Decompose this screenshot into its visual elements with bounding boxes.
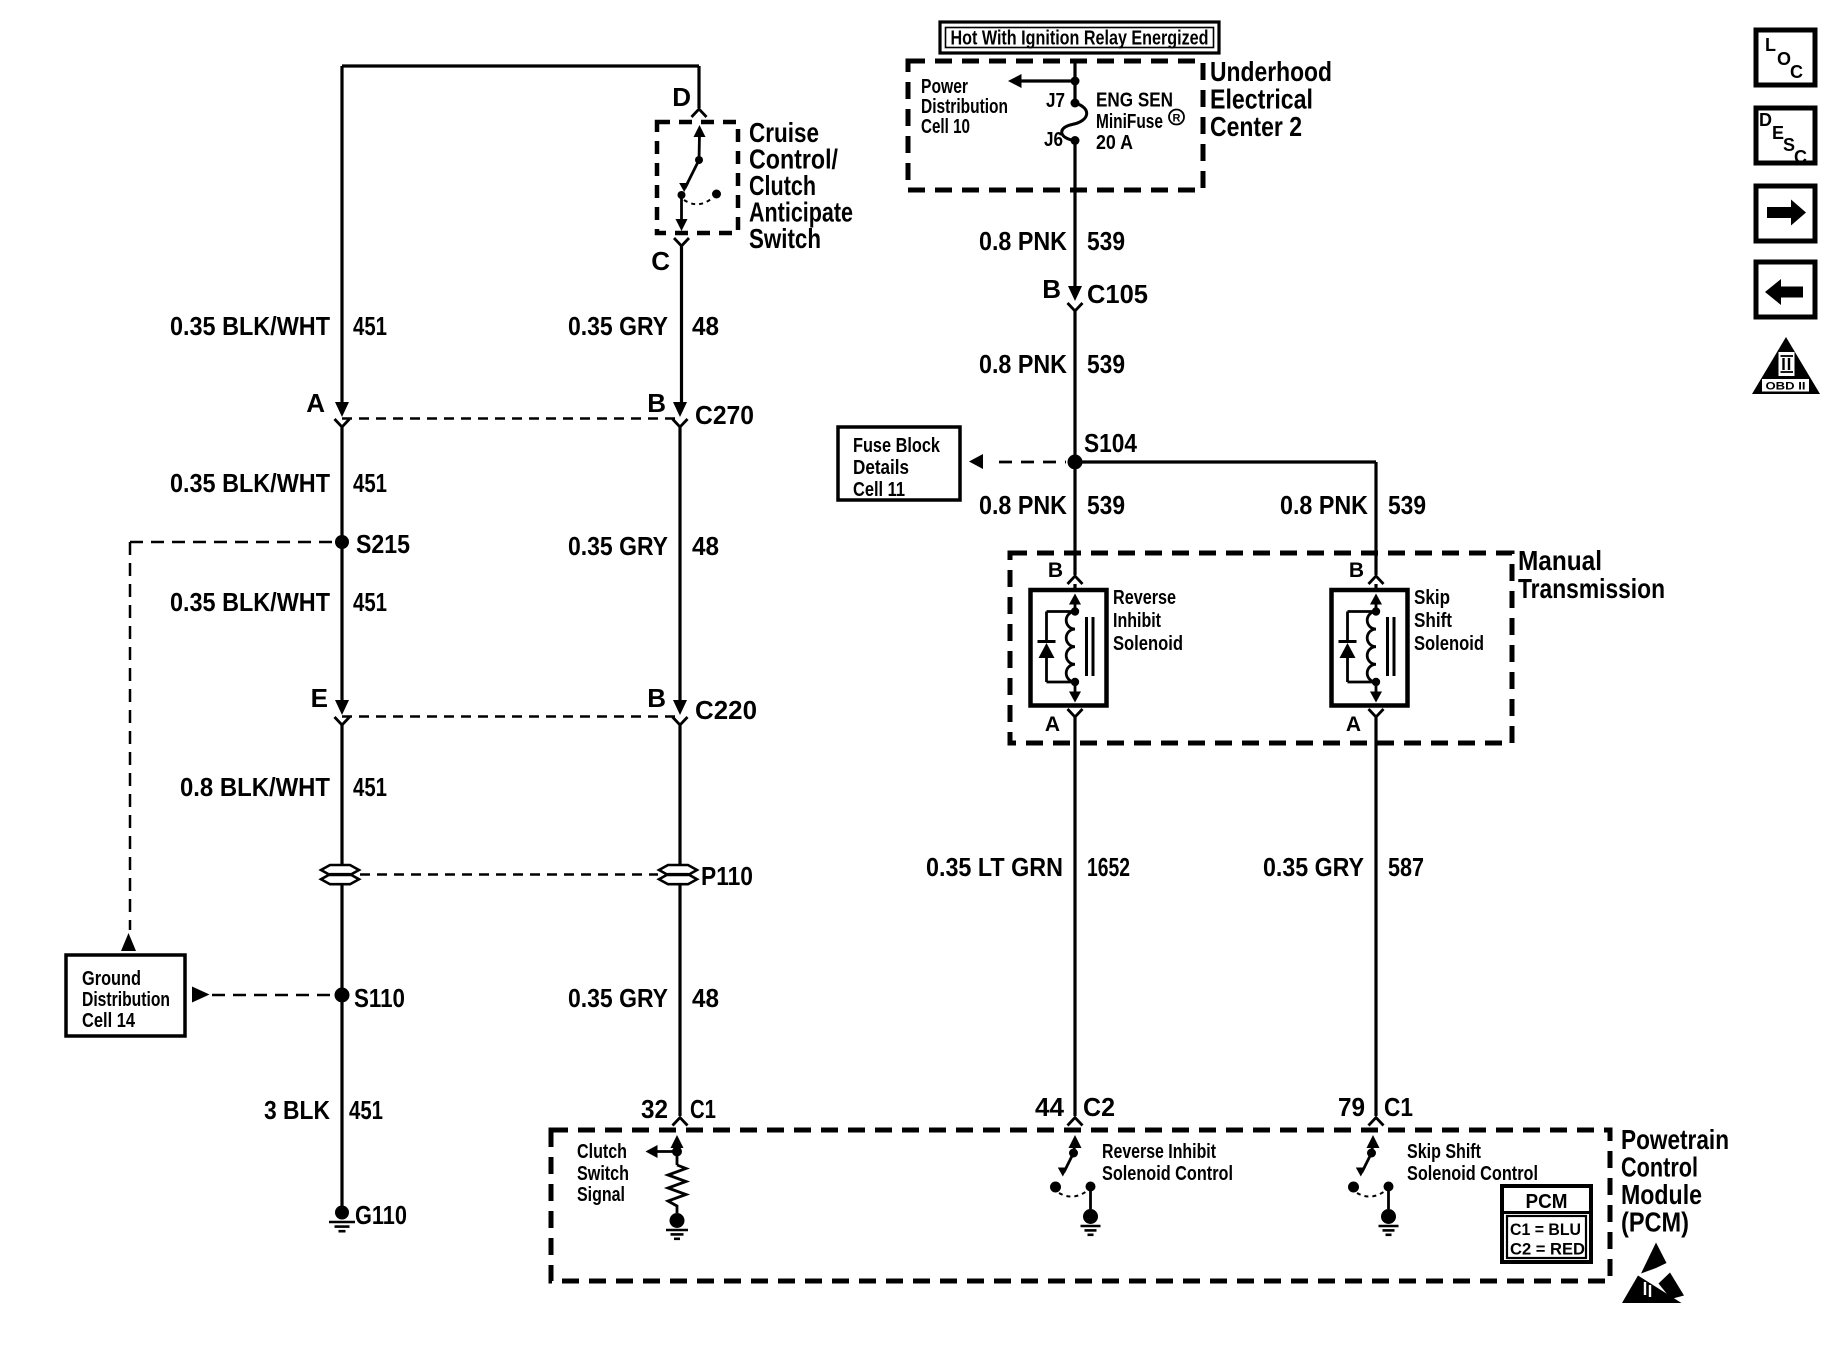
nav icon: back arrow button: [1756, 262, 1815, 317]
svg-text:48: 48: [692, 531, 719, 561]
svg-text:0.35 BLK/WHT: 0.35 BLK/WHT: [170, 468, 330, 498]
svg-text:B: B: [647, 683, 666, 713]
driver output arrow: [1069, 1135, 1082, 1148]
svg-text:539: 539: [1388, 490, 1426, 520]
nav icon: forward arrow button: [1756, 186, 1815, 241]
switch contact arm: [694, 125, 706, 137]
svg-text:32: 32: [641, 1094, 668, 1124]
svg-text:451: 451: [353, 468, 387, 498]
coil winding: [1367, 612, 1376, 682]
svg-text:48: 48: [692, 983, 719, 1013]
wire: middle 0.35 GRY 48 (C220 to P110): [678, 725, 681, 865]
svg-text:B: B: [1048, 559, 1063, 582]
svg-text:0.8 PNK: 0.8 PNK: [979, 349, 1067, 379]
node: coil bottom junction: [1071, 678, 1079, 686]
svg-text:C: C: [1790, 62, 1803, 82]
dashed connector line C270: [342, 417, 680, 420]
svg-text:Cell 14: Cell 14: [82, 1010, 136, 1032]
svg-text:0.35 GRY: 0.35 GRY: [568, 983, 668, 1013]
svg-text:OBD II: OBD II: [1766, 381, 1806, 393]
wire into solenoid case: [1374, 584, 1377, 590]
wire: S104 down to reverse inhibit feed: [1073, 462, 1076, 575]
svg-text:Control: Control: [1621, 1152, 1698, 1183]
driver output arrow: [1367, 1135, 1380, 1148]
svg-text:539: 539: [1087, 226, 1125, 256]
svg-text:0.35 GRY: 0.35 GRY: [1263, 852, 1364, 882]
nav icon: OBD II triangle: [1752, 337, 1820, 394]
svg-text:Module: Module: [1621, 1179, 1702, 1210]
wire: middle 0.35 GRY 48 (P110 to PCM pin 32): [678, 884, 681, 1116]
svg-text:MiniFuse: MiniFuse: [1096, 111, 1163, 133]
svg-text:Reverse Inhibit: Reverse Inhibit: [1102, 1141, 1216, 1163]
cruise control / clutch anticipate switch (dashed outline): [657, 122, 738, 233]
wire: left 0.35 BLK/WHT 451 (top): [340, 66, 343, 403]
wire: 0.35 GRY 48 (switch to C270): [680, 246, 683, 403]
node: coil top junction: [1372, 607, 1380, 615]
svg-text:Power: Power: [921, 76, 968, 98]
reference arrow from ground distribution box: [192, 987, 210, 1003]
wire: solenoid return to PCM: [1374, 717, 1377, 1116]
svg-text:Solenoid: Solenoid: [1414, 633, 1484, 655]
dashed reference line to fuse block details: [999, 461, 1066, 464]
solenoid internal feed arrow: [1370, 594, 1382, 605]
coil winding: [1066, 612, 1075, 682]
alternate throw (dashed): [1357, 1191, 1385, 1197]
connector pin A of solenoid: [1369, 709, 1384, 717]
svg-text:Solenoid: Solenoid: [1113, 633, 1183, 655]
ESD sensitivity symbol: [1641, 1243, 1667, 1274]
svg-text:451: 451: [353, 311, 387, 341]
svg-text:Fuse Block: Fuse Block: [853, 435, 941, 457]
wire into solenoid case: [1073, 584, 1076, 590]
svg-text:Transmission: Transmission: [1518, 573, 1665, 604]
svg-text:S215: S215: [356, 529, 410, 559]
svg-text:Details: Details: [853, 457, 909, 479]
node: coil top junction: [1071, 607, 1079, 615]
wire: 0.8 PNK 539 (fuse to C105): [1073, 141, 1076, 288]
nav icon: LOC button: [1756, 30, 1815, 85]
svg-text:539: 539: [1087, 349, 1125, 379]
powertrain control module (dashed outline): [551, 1130, 1610, 1281]
splice S110: [335, 988, 350, 1003]
power feed banner: Hot With Ignition Relay Energized: [940, 22, 1219, 53]
wire: 0.8 PNK 539 (C105 to S104): [1073, 311, 1076, 462]
svg-text:Powetrain: Powetrain: [1621, 1124, 1729, 1155]
grommet P110 (middle wire): [659, 865, 697, 875]
switch second contact: [1086, 1182, 1096, 1192]
svg-text:C2: C2: [1083, 1092, 1115, 1122]
solenoid case: [1332, 590, 1408, 706]
branch arrow to power distribution: [1016, 79, 1075, 82]
svg-text:D: D: [1759, 110, 1772, 130]
svg-text:ENG SEN: ENG SEN: [1096, 90, 1173, 112]
svg-text:Shift: Shift: [1414, 610, 1452, 632]
svg-text:E: E: [311, 683, 328, 713]
solenoid internal return arrow: [1074, 682, 1077, 693]
svg-text:Ground: Ground: [82, 968, 141, 990]
svg-text:B: B: [647, 388, 666, 418]
wire: left 0.8 BLK/WHT 451: [340, 725, 343, 865]
solenoid internal return arrow: [1375, 682, 1378, 693]
svg-text:0.35 GRY: 0.35 GRY: [568, 531, 668, 561]
svg-text:Cell 11: Cell 11: [853, 479, 905, 501]
switch pivot: [1050, 1182, 1061, 1193]
svg-text:C1: C1: [690, 1094, 716, 1124]
svg-text:0.35 BLK/WHT: 0.35 BLK/WHT: [170, 587, 330, 617]
svg-text:Electrical: Electrical: [1210, 84, 1313, 115]
switch pivot: [1348, 1182, 1359, 1193]
svg-text:J7: J7: [1046, 90, 1065, 112]
underhood electrical center 2 (dashed outline): [908, 61, 1203, 190]
internal ground: [1381, 1209, 1396, 1224]
svg-text:Manual: Manual: [1518, 545, 1602, 576]
svg-text:Cell 10: Cell 10: [921, 116, 970, 138]
switch fixed contact: [1069, 1149, 1078, 1158]
svg-text:Signal: Signal: [577, 1184, 625, 1206]
svg-text:C220: C220: [695, 695, 757, 725]
internal ground: [1083, 1209, 1098, 1224]
svg-text:Solenoid Control: Solenoid Control: [1407, 1163, 1538, 1185]
svg-text:A: A: [1346, 713, 1361, 736]
svg-text:Skip: Skip: [1414, 587, 1450, 609]
svg-text:79: 79: [1338, 1092, 1365, 1122]
switch arm: [1064, 1153, 1074, 1172]
svg-text:451: 451: [353, 587, 387, 617]
svg-text:Clutch: Clutch: [577, 1141, 627, 1163]
manual transmission (dashed outline): [1010, 553, 1512, 743]
svg-text:Center 2: Center 2: [1210, 111, 1302, 142]
switch second contact: [1384, 1182, 1394, 1192]
connector pin D of cruise switch: [692, 109, 707, 117]
resistor (clutch switch pull-up): [668, 1165, 686, 1213]
internal ground at pin 32: [670, 1213, 685, 1228]
svg-text:587: 587: [1388, 852, 1424, 882]
coil core bars: [1085, 617, 1088, 676]
svg-text:Distribution: Distribution: [82, 989, 170, 1011]
fuse ENG SEN MiniFuse 20 A (terminals J7/J6): [1071, 99, 1080, 108]
svg-text:S104: S104: [1084, 428, 1137, 458]
svg-text:Reverse: Reverse: [1113, 587, 1176, 609]
svg-text:0.35 LT GRN: 0.35 LT GRN: [926, 852, 1063, 882]
suppression diode across coil: [1047, 610, 1076, 613]
switch alternate-throw dashed arc: [684, 199, 711, 204]
svg-text:A: A: [306, 388, 325, 418]
nav icon: DESC button: [1756, 108, 1815, 163]
grommet P110 (left wire): [321, 865, 359, 875]
svg-text:J6: J6: [1044, 129, 1063, 151]
svg-text:Switch: Switch: [577, 1163, 629, 1185]
wire: left 0.35 BLK/WHT 451 (to S215): [340, 427, 343, 536]
wire: branch from S104 to skip shift feed: [1075, 460, 1376, 463]
splice S215: [335, 535, 349, 549]
svg-text:451: 451: [353, 772, 387, 802]
suppression diode across coil: [1348, 610, 1377, 613]
svg-text:B: B: [1042, 274, 1061, 304]
svg-text:C1 = BLU: C1 = BLU: [1510, 1220, 1581, 1239]
solenoid internal feed arrow: [1069, 594, 1081, 605]
wire: drop to connector D: [697, 66, 700, 108]
svg-text:(PCM): (PCM): [1621, 1207, 1689, 1238]
PCM pin 32 interior: clutch switch signal input: [671, 1135, 684, 1148]
fuse block details reference box: [838, 427, 960, 500]
svg-text:3 BLK: 3 BLK: [264, 1095, 330, 1125]
svg-text:20 A: 20 A: [1096, 132, 1133, 154]
svg-text:O: O: [1777, 49, 1791, 69]
svg-text:A: A: [1045, 713, 1060, 736]
svg-text:48: 48: [692, 311, 719, 341]
svg-text:Skip Shift: Skip Shift: [1407, 1141, 1481, 1163]
svg-text:539: 539: [1087, 490, 1125, 520]
svg-text:C1: C1: [1384, 1092, 1413, 1122]
svg-text:C: C: [1794, 147, 1807, 167]
svg-text:L: L: [1765, 35, 1776, 55]
svg-text:Distribution: Distribution: [921, 96, 1008, 118]
PCM connector legend box: [1502, 1186, 1591, 1262]
reference arrow to ground distribution cell: [121, 933, 136, 951]
svg-text:C: C: [651, 246, 670, 276]
coil core bars: [1386, 617, 1389, 676]
wire: middle 0.35 GRY 48 (C270 to C220): [678, 427, 681, 701]
svg-text:PCM: PCM: [1526, 1191, 1568, 1213]
svg-text:P110: P110: [701, 861, 753, 891]
svg-text:G110: G110: [355, 1200, 407, 1230]
solenoid case: [1031, 590, 1107, 706]
svg-text:Inhibit: Inhibit: [1113, 610, 1161, 632]
wire: left to S110: [340, 884, 343, 988]
svg-text:0.8 PNK: 0.8 PNK: [979, 226, 1067, 256]
ground distribution reference box: [66, 955, 185, 1036]
registered trademark symbol: [1169, 110, 1184, 125]
svg-text:Underhood: Underhood: [1210, 56, 1332, 87]
wire: top horizontal 451/48 jumper: [342, 64, 699, 67]
alternate throw (dashed): [1059, 1191, 1087, 1197]
wire: 3 BLK 451 (S110 to G110): [340, 995, 343, 1206]
dashed connector line P110: [360, 873, 658, 876]
svg-text:Solenoid Control: Solenoid Control: [1102, 1163, 1233, 1185]
svg-text:0.8 BLK/WHT: 0.8 BLK/WHT: [180, 772, 330, 802]
ground G110: [335, 1206, 349, 1220]
wire: left 0.35 BLK/WHT 451 (S215 to C220): [340, 542, 343, 701]
svg-text:C270: C270: [695, 400, 754, 430]
connector pin C of cruise switch: [674, 238, 689, 246]
dashed reference line to S110: [212, 994, 333, 997]
svg-text:0.35 GRY: 0.35 GRY: [568, 311, 668, 341]
switch fixed contact: [1367, 1149, 1376, 1158]
switch arm: [1362, 1153, 1372, 1172]
svg-text:0.35 BLK/WHT: 0.35 BLK/WHT: [170, 311, 330, 341]
splice S104: [1068, 455, 1083, 470]
svg-text:Hot With Ignition Relay Energi: Hot With Ignition Relay Energized: [951, 28, 1209, 50]
dashed connector line C220: [342, 715, 680, 718]
svg-text:C105: C105: [1087, 279, 1148, 309]
svg-text:C2 = RED: C2 = RED: [1510, 1240, 1585, 1259]
svg-text:0.8 PNK: 0.8 PNK: [979, 490, 1067, 520]
wire: solenoid return to PCM: [1073, 717, 1076, 1116]
svg-text:B: B: [1349, 559, 1364, 582]
svg-text:Switch: Switch: [749, 223, 821, 254]
connector pin A of solenoid: [1068, 709, 1083, 717]
svg-text:S110: S110: [354, 983, 405, 1013]
node: coil bottom junction: [1372, 678, 1380, 686]
svg-text:R: R: [1173, 113, 1181, 125]
dashed reference line from S215 to ground distribution: [130, 541, 334, 544]
wire: feed into fuse: [1073, 63, 1076, 103]
svg-text:44: 44: [1035, 1092, 1065, 1122]
svg-text:451: 451: [349, 1095, 383, 1125]
svg-text:0.8 PNK: 0.8 PNK: [1280, 490, 1368, 520]
svg-text:1652: 1652: [1087, 852, 1130, 882]
svg-text:D: D: [672, 82, 691, 112]
